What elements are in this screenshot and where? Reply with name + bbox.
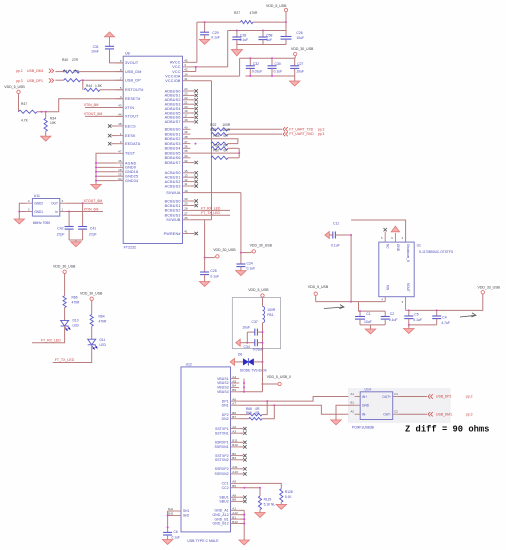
svg-text:R64: R64 bbox=[99, 315, 105, 319]
junction bbox=[262, 383, 264, 385]
svg-text:R66: R66 bbox=[72, 296, 78, 300]
ground bbox=[365, 325, 375, 334]
no-connect EEDATA bbox=[108, 142, 116, 145]
net label FT_TX_LED bbox=[190, 211, 230, 215]
svg-text:VDD_30_USB: VDD_30_USB bbox=[80, 292, 103, 296]
power VDD_5_USB bbox=[248, 288, 269, 306]
svg-text:ADBUS4: ADBUS4 bbox=[165, 107, 181, 111]
wire bbox=[81, 79, 124, 81]
wire bbox=[246, 332, 248, 343]
ground bbox=[71, 240, 81, 247]
svg-text:31: 31 bbox=[184, 77, 188, 81]
junction bbox=[262, 361, 264, 363]
svg-text:SSRXP1: SSRXP1 bbox=[215, 441, 229, 445]
svg-text:B1: B1 bbox=[350, 401, 354, 405]
capacitor C11 bbox=[329, 221, 351, 247]
no-connect SSTXN2 bbox=[239, 458, 246, 461]
svg-text:100R: 100R bbox=[222, 128, 231, 132]
svg-text:B11: B11 bbox=[232, 439, 238, 443]
svg-text:GND1: GND1 bbox=[34, 210, 43, 214]
capacitor C5 bbox=[404, 310, 422, 325]
resistor R44 bbox=[83, 80, 123, 91]
svg-text:24: 24 bbox=[184, 87, 188, 91]
svg-text:pp.3: pp.3 bbox=[466, 412, 473, 416]
resistor R34 bbox=[44, 112, 57, 137]
svg-text:VDD_5_USB: VDD_5_USB bbox=[308, 285, 329, 289]
svg-text:B3: B3 bbox=[232, 456, 236, 460]
wire bbox=[19, 211, 27, 213]
svg-text:A9: A9 bbox=[232, 379, 236, 383]
ferrite bead FB1 bbox=[263, 306, 276, 323]
svg-text:15: 15 bbox=[184, 169, 188, 173]
svg-text:BCBUS0: BCBUS0 bbox=[165, 199, 181, 203]
svg-text:36: 36 bbox=[184, 145, 188, 149]
wire bbox=[316, 301, 386, 303]
svg-text:XTOUT: XTOUT bbox=[125, 115, 139, 119]
svg-text:27R: 27R bbox=[73, 69, 80, 73]
svg-text:40: 40 bbox=[184, 126, 188, 130]
resistor R128 5.1K bbox=[280, 489, 293, 505]
svg-text:CC2: CC2 bbox=[222, 486, 229, 490]
svg-text:14: 14 bbox=[184, 72, 188, 76]
svg-text:VDD_5_USB: VDD_5_USB bbox=[248, 288, 269, 292]
junction bbox=[167, 515, 169, 529]
svg-text:EECS: EECS bbox=[125, 124, 136, 128]
svg-text:17: 17 bbox=[184, 114, 188, 118]
svg-text:FT2232: FT2232 bbox=[124, 246, 136, 250]
svg-text:U11: U11 bbox=[34, 194, 40, 198]
svg-text:R34: R34 bbox=[50, 117, 56, 121]
svg-text:SSTXN2: SSTXN2 bbox=[215, 458, 229, 462]
svg-text:XTOUT_6M: XTOUT_6M bbox=[84, 199, 103, 203]
svg-text:RESET#: RESET# bbox=[125, 97, 141, 101]
ground bbox=[41, 136, 51, 141]
svg-text:470R: 470R bbox=[72, 301, 81, 305]
svg-text:LED: LED bbox=[73, 324, 80, 328]
svg-text:XTIN_6M: XTIN_6M bbox=[84, 207, 99, 211]
resistor R41 bbox=[55, 69, 80, 81]
svg-text:DN2: DN2 bbox=[222, 417, 229, 421]
power VDD_30_USB bbox=[80, 292, 103, 315]
svg-text:DIODE TVS Bi-Dir: DIODE TVS Bi-Dir bbox=[240, 369, 268, 373]
svg-text:FT_TX_LED: FT_TX_LED bbox=[201, 211, 220, 215]
svg-text:28: 28 bbox=[184, 207, 188, 211]
svg-text:R65: R65 bbox=[213, 134, 219, 138]
svg-text:0.1uF: 0.1uF bbox=[211, 35, 220, 39]
svg-text:ADBUS1: ADBUS1 bbox=[165, 94, 181, 98]
wire bbox=[262, 323, 264, 362]
svg-text:VDD_30_USB: VDD_30_USB bbox=[53, 265, 76, 269]
svg-text:ADBUS2: ADBUS2 bbox=[165, 98, 181, 102]
svg-text:0.01uF: 0.01uF bbox=[253, 347, 264, 351]
svg-text:pp.2: pp.2 bbox=[466, 395, 473, 399]
svg-text:26: 26 bbox=[184, 216, 188, 220]
svg-text:GND34: GND34 bbox=[125, 179, 138, 183]
no-connect BDBUS7 bbox=[190, 161, 198, 164]
no-connect SSRXP1 bbox=[239, 441, 246, 444]
svg-text:VDD_30_USB: VDD_30_USB bbox=[250, 243, 273, 247]
svg-text:ADBUS3: ADBUS3 bbox=[165, 103, 181, 107]
wire bbox=[190, 139, 238, 144]
capacitor C6 bbox=[163, 530, 180, 540]
svg-text:GND2: GND2 bbox=[34, 202, 43, 206]
svg-text:10: 10 bbox=[184, 189, 188, 193]
svg-text:GND_B12: GND_B12 bbox=[213, 522, 229, 526]
power VDD_5_USB bbox=[4, 85, 25, 112]
junction bbox=[195, 66, 197, 68]
capacitor C25 bbox=[200, 258, 219, 282]
svg-text:ACBUS3: ACBUS3 bbox=[165, 184, 181, 188]
svg-text:B10: B10 bbox=[232, 443, 238, 447]
junction bbox=[408, 324, 410, 326]
svg-text:34: 34 bbox=[118, 177, 122, 181]
svg-text:USB_DP1: USB_DP1 bbox=[27, 79, 43, 83]
capacitor C24 bbox=[236, 253, 255, 271]
ground bbox=[404, 325, 414, 334]
svg-text:VDD_5_USB: VDD_5_USB bbox=[266, 4, 287, 8]
svg-text:ACBUS2: ACBUS2 bbox=[165, 180, 181, 184]
svg-text:C1: C1 bbox=[366, 312, 370, 316]
svg-text:VCCIOA: VCCIOA bbox=[165, 74, 181, 78]
junction bbox=[249, 75, 251, 77]
resistor R25 bbox=[210, 128, 231, 136]
junction bbox=[204, 21, 206, 23]
capacitor C41 bbox=[78, 203, 97, 240]
no-connect ADBUS0 bbox=[190, 89, 198, 92]
svg-text:25: 25 bbox=[118, 172, 122, 176]
wire bbox=[350, 235, 352, 302]
svg-text:D11: D11 bbox=[100, 338, 106, 342]
power VDD_33_USB bbox=[478, 286, 501, 294]
svg-text:VBUS2: VBUS2 bbox=[217, 381, 229, 385]
svg-text:0.1uF: 0.1uF bbox=[389, 318, 398, 322]
svg-text:48: 48 bbox=[118, 122, 122, 126]
LED D11 bbox=[88, 338, 107, 349]
wire bbox=[239, 391, 262, 393]
svg-text:0R: 0R bbox=[223, 134, 228, 138]
svg-text:6MHz 7050: 6MHz 7050 bbox=[33, 221, 50, 225]
off-page port USB_DM1 bbox=[16, 69, 54, 73]
svg-text:C24: C24 bbox=[247, 261, 253, 265]
wire bbox=[262, 362, 264, 392]
svg-text:PWREN#: PWREN# bbox=[164, 232, 182, 236]
svg-text:0.1uF: 0.1uF bbox=[210, 275, 219, 279]
svg-text:R22: R22 bbox=[210, 123, 216, 127]
svg-text:470R: 470R bbox=[250, 11, 259, 15]
svg-text:C26: C26 bbox=[296, 31, 302, 35]
junction bbox=[18, 211, 20, 213]
net label FT_TX_LED bbox=[53, 345, 92, 363]
junction bbox=[243, 514, 245, 525]
ground bbox=[105, 32, 115, 46]
junction bbox=[95, 162, 97, 182]
svg-text:R25: R25 bbox=[210, 128, 216, 132]
no-connect ADBUS6 bbox=[190, 116, 198, 119]
svg-text:NC: NC bbox=[386, 244, 390, 249]
svg-text:VCC: VCC bbox=[172, 70, 181, 74]
wire bbox=[190, 22, 286, 62]
wire bbox=[239, 483, 281, 488]
ground bbox=[162, 540, 172, 545]
ground bbox=[199, 282, 209, 287]
svg-text:GND: GND bbox=[362, 404, 370, 408]
svg-text:BDBUS7: BDBUS7 bbox=[165, 161, 181, 165]
svg-text:C37: C37 bbox=[252, 320, 258, 324]
no-connect ACBUS3 bbox=[190, 184, 198, 187]
off-page port USB_DP1 bbox=[398, 394, 472, 398]
svg-text:R67: R67 bbox=[213, 149, 219, 153]
svg-text:33: 33 bbox=[184, 154, 188, 158]
ground bbox=[14, 219, 24, 224]
no-connect ADBUS2 bbox=[190, 98, 198, 101]
junction bbox=[259, 487, 261, 489]
svg-text:VDD_30_USB: VDD_30_USB bbox=[291, 47, 314, 51]
junction bbox=[238, 152, 240, 154]
svg-text:In: In bbox=[55, 210, 58, 214]
svg-text:0R: 0R bbox=[255, 411, 260, 415]
resistor R67 bbox=[211, 149, 239, 160]
svg-text:0.1uF: 0.1uF bbox=[413, 318, 422, 322]
resistor R68 0R bbox=[239, 401, 267, 416]
svg-text:35: 35 bbox=[184, 149, 188, 153]
junction bbox=[273, 404, 275, 406]
no-connect EESK bbox=[108, 134, 116, 137]
svg-text:AVCC: AVCC bbox=[170, 61, 181, 65]
junction bbox=[82, 202, 84, 204]
svg-text:D6: D6 bbox=[238, 353, 242, 357]
wire bbox=[96, 162, 116, 164]
power VDD_30_USB bbox=[291, 47, 314, 58]
wire bbox=[409, 324, 437, 326]
svg-text:4.7K: 4.7K bbox=[21, 119, 29, 123]
no-connect ACBUS1 bbox=[190, 176, 198, 179]
junction bbox=[271, 57, 273, 59]
net label FT_RX_LED bbox=[190, 206, 230, 210]
svg-text:XTIN_6M: XTIN_6M bbox=[84, 103, 99, 107]
svg-text:pp.3: pp.3 bbox=[318, 128, 325, 132]
capacitor C30 bbox=[268, 58, 283, 76]
capacitor C4 bbox=[432, 310, 450, 325]
capacitor C32 bbox=[246, 58, 263, 76]
wire bbox=[360, 324, 385, 326]
svg-text:47: 47 bbox=[118, 150, 122, 154]
ground bbox=[239, 540, 249, 545]
svg-text:BDBUS5: BDBUS5 bbox=[165, 151, 181, 155]
svg-text:10uF: 10uF bbox=[364, 320, 372, 324]
svg-text:13: 13 bbox=[184, 173, 188, 177]
wire bbox=[69, 239, 83, 241]
svg-text:SH1: SH1 bbox=[168, 507, 174, 511]
wire bbox=[37, 99, 123, 112]
junction bbox=[359, 310, 361, 312]
capacitor C42 bbox=[57, 212, 74, 241]
wire bbox=[238, 148, 240, 158]
junction bbox=[243, 487, 245, 489]
svg-text:USB_DM1: USB_DM1 bbox=[436, 412, 452, 416]
power VDD_5_USB bbox=[266, 4, 288, 22]
ground bbox=[391, 226, 399, 232]
svg-text:22: 22 bbox=[184, 96, 188, 100]
ground bbox=[230, 358, 234, 365]
svg-text:20: 20 bbox=[184, 105, 188, 109]
svg-text:BDBUS6: BDBUS6 bbox=[165, 156, 181, 160]
resistor R47 bbox=[19, 102, 38, 123]
svg-text:FB1: FB1 bbox=[267, 313, 273, 317]
net label FT_RX_LED bbox=[32, 326, 65, 343]
svg-text:R27: R27 bbox=[234, 11, 240, 15]
svg-text:38: 38 bbox=[184, 135, 188, 139]
svg-text:C41: C41 bbox=[90, 227, 96, 231]
svg-text:BDBUS1: BDBUS1 bbox=[165, 132, 181, 136]
svg-text:DN1: DN1 bbox=[222, 403, 229, 407]
no-connect ACBUS2 bbox=[190, 180, 198, 183]
svg-text:SH1: SH1 bbox=[183, 509, 189, 513]
wire bbox=[190, 81, 211, 258]
svg-text:32: 32 bbox=[184, 159, 188, 163]
wire bbox=[239, 510, 244, 540]
svg-text:R69: R69 bbox=[246, 411, 252, 415]
svg-text:C6: C6 bbox=[174, 530, 178, 534]
svg-text:XTIN: XTIN bbox=[125, 106, 134, 110]
svg-text:Shutdown_N: Shutdown_N bbox=[406, 244, 410, 263]
svg-text:A12: A12 bbox=[232, 511, 238, 515]
svg-text:S-1170B50UC-OTSTFG: S-1170B50UC-OTSTFG bbox=[419, 250, 454, 254]
junction bbox=[68, 211, 70, 213]
wire bbox=[19, 203, 27, 219]
svg-text:TEST: TEST bbox=[125, 152, 136, 156]
wire bbox=[239, 397, 354, 402]
svg-text:16: 16 bbox=[184, 118, 188, 122]
wire bbox=[359, 302, 386, 312]
svg-text:OUT: OUT bbox=[51, 202, 58, 206]
svg-text:R128: R128 bbox=[285, 490, 293, 494]
svg-text:LED: LED bbox=[100, 343, 107, 347]
wire bbox=[190, 22, 286, 71]
wire bbox=[406, 294, 483, 310]
svg-text:C11: C11 bbox=[333, 221, 339, 225]
svg-text:0.1uF: 0.1uF bbox=[247, 267, 256, 271]
svg-text:BCBUS3: BCBUS3 bbox=[165, 214, 181, 218]
svg-text:EESK: EESK bbox=[125, 134, 136, 138]
wire bbox=[336, 405, 355, 420]
IC U1 S-1170 regulator bbox=[379, 232, 454, 311]
capacitor C31 bbox=[91, 45, 114, 54]
wire bbox=[96, 153, 116, 184]
svg-text:GND_B1: GND_B1 bbox=[215, 517, 229, 521]
junction bbox=[436, 309, 438, 311]
no-connect SSTXN1 bbox=[239, 432, 246, 435]
svg-text:XTOUT_6M: XTOUT_6M bbox=[84, 112, 103, 116]
svg-text:U1: U1 bbox=[417, 243, 421, 247]
junction bbox=[236, 30, 238, 32]
svg-text:A2: A2 bbox=[232, 425, 236, 429]
svg-text:46: 46 bbox=[118, 159, 122, 163]
junction bbox=[408, 309, 410, 311]
svg-text:BDBUS2: BDBUS2 bbox=[165, 137, 181, 141]
svg-text:100R: 100R bbox=[222, 123, 231, 127]
svg-text:C42: C42 bbox=[57, 227, 63, 231]
wire bbox=[239, 405, 354, 414]
svg-text:SSTXN1: SSTXN1 bbox=[215, 431, 229, 435]
wire bbox=[168, 511, 174, 532]
svg-text:FT_UART_TXD: FT_UART_TXD bbox=[289, 128, 313, 132]
svg-text:VDD_5_USB: VDD_5_USB bbox=[4, 85, 25, 89]
wire bbox=[246, 75, 295, 77]
junction bbox=[240, 252, 242, 254]
svg-text:C1: C1 bbox=[394, 392, 398, 396]
svg-text:VDD_33_USB: VDD_33_USB bbox=[478, 286, 501, 290]
svg-text:1uF: 1uF bbox=[266, 38, 272, 42]
junction bbox=[204, 257, 206, 259]
IC U8 FT2232 bbox=[116, 52, 191, 250]
svg-text:RSTOUT#: RSTOUT# bbox=[125, 88, 144, 92]
junction bbox=[45, 111, 47, 113]
no-connect BCBUS0 bbox=[190, 199, 198, 202]
svg-text:23: 23 bbox=[184, 92, 188, 96]
svg-text:18: 18 bbox=[118, 168, 122, 172]
svg-text:0.1uF: 0.1uF bbox=[331, 244, 340, 248]
wire bbox=[239, 488, 260, 496]
svg-text:SBU2: SBU2 bbox=[219, 500, 228, 504]
IC U14 PCMF1USB3B bbox=[350, 387, 398, 429]
svg-text:VIN: VIN bbox=[386, 285, 390, 291]
svg-text:U8: U8 bbox=[125, 52, 130, 56]
no-connect PWREN# bbox=[190, 232, 198, 235]
svg-text:BCBUS2: BCBUS2 bbox=[165, 209, 181, 213]
junction bbox=[246, 342, 248, 344]
svg-text:0.1uF: 0.1uF bbox=[274, 70, 283, 74]
svg-text:A4: A4 bbox=[232, 375, 236, 379]
junction bbox=[350, 234, 352, 236]
wire bbox=[237, 44, 286, 46]
capacitor C28 bbox=[232, 31, 248, 45]
svg-text:B4: B4 bbox=[232, 384, 236, 388]
svg-text:GND9: GND9 bbox=[125, 166, 136, 170]
no-connect ADBUS1 bbox=[190, 94, 198, 97]
svg-text:USB_DM1: USB_DM1 bbox=[27, 69, 44, 73]
net label XTOUT_6M bbox=[65, 199, 103, 203]
no-connect ADBUS7 bbox=[190, 120, 198, 123]
svg-text:R47: R47 bbox=[21, 102, 27, 106]
ground bbox=[236, 271, 246, 276]
connector U12 USB Type C bbox=[168, 362, 239, 543]
junction bbox=[249, 57, 251, 59]
svg-text:10nF: 10nF bbox=[91, 50, 99, 54]
svg-text:R41: R41 bbox=[63, 69, 69, 73]
wire bbox=[190, 152, 239, 154]
svg-text:21: 21 bbox=[184, 100, 188, 104]
svg-text:pp.2: pp.2 bbox=[16, 69, 23, 73]
no-connect SSRXN1 bbox=[239, 445, 246, 448]
svg-text:C25: C25 bbox=[210, 269, 216, 273]
ground bbox=[255, 513, 265, 518]
svg-text:A1: A1 bbox=[232, 507, 236, 511]
capacitor C26 bbox=[281, 31, 305, 45]
svg-text:12: 12 bbox=[184, 178, 188, 182]
svg-text:ACBUS1: ACBUS1 bbox=[165, 176, 181, 180]
svg-text:FT_RX_LED: FT_RX_LED bbox=[41, 338, 61, 342]
svg-text:BDBUS0: BDBUS0 bbox=[165, 128, 181, 132]
svg-text:FT_TX_LED: FT_TX_LED bbox=[55, 358, 75, 362]
resistor R66 bbox=[211, 143, 239, 150]
junction bbox=[262, 331, 264, 333]
svg-text:VBUS3: VBUS3 bbox=[217, 386, 229, 390]
svg-text:IN-: IN- bbox=[362, 413, 366, 417]
svg-text:4.7uF: 4.7uF bbox=[441, 321, 450, 325]
svg-text:ACBUS0: ACBUS0 bbox=[165, 171, 181, 175]
svg-text:C32: C32 bbox=[253, 62, 259, 66]
resistor R40 bbox=[55, 58, 79, 73]
